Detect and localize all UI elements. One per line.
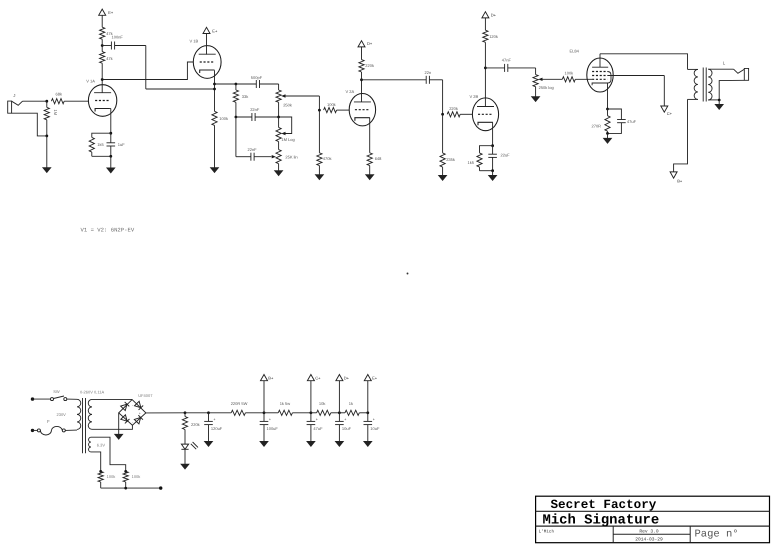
mains terminal top [31, 397, 34, 400]
wire V2B cathode lead [491, 121, 493, 123]
svg-text:1k5: 1k5 [97, 142, 104, 147]
svg-text:100k: 100k [132, 474, 141, 479]
power D+ tap [338, 381, 340, 413]
transformer T2 secondary [708, 69, 712, 100]
svg-text:22nF: 22nF [250, 107, 260, 112]
svg-text:V 1A: V 1A [86, 79, 95, 84]
svg-text:C+: C+ [667, 111, 673, 116]
wire 100nF down [145, 46, 147, 90]
ground V1B load [210, 168, 218, 173]
power C+ screen supply [661, 106, 668, 112]
wire EL84 cathode lead [607, 83, 609, 109]
potentiometer 250k treble [278, 84, 280, 90]
wire 6.3V bottom to humdinger [91, 452, 101, 472]
wire coupling down [442, 80, 444, 115]
wire V1B plate lead [206, 34, 208, 55]
node 120uF [207, 411, 210, 414]
resistor 1M input load [46, 101, 48, 107]
svg-text:J: J [13, 93, 15, 98]
capacitor 10uF filter E [367, 413, 369, 422]
node speaker ground [718, 99, 721, 102]
svg-text:EL84: EL84 [570, 49, 580, 54]
ground LED [181, 464, 189, 469]
wire bass wiper tie [279, 117, 292, 134]
svg-text:47k: 47k [106, 56, 112, 61]
node EL84 cathode [606, 108, 609, 111]
wire bridge minus to ground [118, 413, 120, 434]
wire EL84 plate lead [599, 54, 601, 67]
svg-text:25K lin: 25K lin [285, 155, 297, 160]
svg-text:68k: 68k [56, 92, 62, 97]
ground tone stack [274, 171, 282, 176]
ground input [43, 168, 51, 173]
svg-text:470k: 470k [323, 156, 332, 161]
wire 100k to EL84 grid [575, 78, 592, 80]
wire rail [359, 412, 368, 414]
capacitor 47nF coupling to master [485, 67, 504, 69]
svg-text:1M Log: 1M Log [281, 137, 294, 142]
node input grid [45, 100, 48, 103]
svg-text:220k: 220k [365, 63, 374, 68]
svg-text:SW: SW [53, 389, 60, 394]
wire master to ground [535, 87, 537, 97]
resistor 100k humdinger left [98, 471, 103, 482]
wire rail [339, 412, 345, 414]
node tone stack top left [235, 83, 238, 86]
svg-text:10uF: 10uF [342, 426, 352, 431]
svg-text:E+: E+ [212, 28, 218, 33]
resistor 470k V2A grid leak [318, 110, 320, 153]
resistor 33k tone slope [235, 84, 237, 90]
wire rail [245, 412, 264, 414]
capacitor 120uF filter [208, 413, 210, 422]
svg-text:+: + [213, 418, 215, 422]
svg-text:1M: 1M [53, 110, 58, 116]
wire V2B cathode RC bottom [480, 170, 493, 172]
ground 235k [438, 175, 446, 180]
svg-text:47uF: 47uF [627, 119, 637, 124]
wire V2A cathode lead [368, 117, 371, 119]
ground 100uF [260, 441, 268, 446]
wire jack sleeve to ground [12, 113, 47, 136]
wire fuse to transformer primary [65, 429, 77, 431]
wire secondary bottom [708, 99, 719, 101]
svg-text:235k: 235k [446, 157, 455, 162]
transformer T1 core [82, 398, 84, 453]
mains terminal bottom [31, 429, 34, 432]
resistor 100k V1B load [212, 111, 217, 125]
node humdinger right [124, 470, 127, 473]
power E+ tap [367, 381, 369, 413]
svg-text:47uF: 47uF [313, 426, 323, 431]
svg-text:C+: C+ [315, 375, 321, 380]
resistor 220k V2B grid [447, 112, 460, 117]
EL84 cathode bar [592, 83, 607, 85]
wire HV top to bridge [92, 398, 132, 400]
resistor 120k V2B plate load [484, 42, 486, 68]
wire 68k to V1A grid [64, 100, 89, 102]
capacitor 22uF V2B cathode bypass [492, 146, 494, 155]
svg-text:V 2B: V 2B [470, 94, 479, 99]
resistor 1k 5w dropper [278, 410, 292, 415]
capacitor 1uF V1A cathode bypass [110, 133, 112, 143]
svg-text:B+: B+ [268, 375, 274, 380]
resistor 47k V1A plate load upper [100, 27, 105, 39]
potentiometer 25K lin mid [272, 155, 276, 158]
resistor 235k V2B grid leak [442, 114, 444, 153]
ground 470k [315, 175, 323, 180]
capacitor 22nF bass [236, 116, 252, 118]
wire treble out down [318, 96, 320, 110]
svg-text:22n: 22n [425, 70, 432, 75]
resistor 220R 5W dropper [231, 410, 245, 415]
ground 47uF [307, 441, 315, 446]
wire to ground [110, 156, 112, 168]
wire rail [209, 412, 232, 414]
wire to ground [46, 136, 48, 168]
wire EL84 plate to output transformer [600, 54, 688, 70]
wire 235k to ground [442, 167, 444, 175]
svg-text:250k log: 250k log [539, 85, 554, 90]
svg-text:500pF: 500pF [251, 75, 263, 80]
svg-text:Page n°: Page n° [695, 529, 739, 541]
wire 100nF to V1B cathode [146, 88, 215, 90]
wire V1A plate to V1B grid [102, 62, 193, 80]
svg-text:V 2A: V 2A [346, 89, 355, 94]
node V2B cathode bottom [491, 169, 494, 172]
node V1B cathode cap join [213, 88, 216, 91]
wire rail [185, 412, 209, 414]
node V1A cathode [109, 132, 112, 135]
node heater reference end [159, 486, 162, 489]
resistor 220k V2A plate load [361, 72, 363, 80]
resistor 100k V2A grid [324, 108, 337, 113]
wire switch to transformer primary [67, 398, 77, 400]
svg-text:L'Mich: L'Mich [539, 529, 555, 535]
svg-text:V 1B: V 1B [190, 39, 199, 44]
resistor 270R EL84 cathode [607, 109, 609, 116]
svg-text:-: - [132, 403, 133, 407]
svg-text:V1 = V2: 6N2P-EV: V1 = V2: 6N2P-EV [81, 227, 135, 234]
capacitor 10uF filter [338, 413, 340, 422]
wire bridge plus to rail [146, 412, 185, 414]
wire secondary to speaker jack L [708, 68, 733, 70]
svg-text:D+: D+ [344, 375, 350, 380]
wire screen to C+ drop [663, 76, 665, 107]
node input ground [45, 135, 48, 138]
ground speaker [715, 104, 723, 109]
power E+ V1A supply [101, 15, 103, 27]
node V1B cathode out [213, 83, 216, 86]
capacitor 22n coupling [362, 79, 427, 81]
svg-text:10uF: 10uF [370, 426, 380, 431]
svg-text:Mich Signature: Mich Signature [543, 513, 660, 529]
svg-text:120k: 120k [489, 34, 498, 39]
resistor 68k grid stopper [51, 99, 64, 104]
ground V2B cathode [488, 175, 496, 180]
node tone mid right [277, 116, 280, 119]
power B+ plate supply [670, 172, 677, 178]
svg-text:33k: 33k [242, 94, 248, 99]
svg-text:100uF: 100uF [267, 426, 279, 431]
svg-text:100k: 100k [565, 70, 574, 75]
title block frame [536, 496, 770, 543]
node V2B plate [484, 67, 487, 70]
svg-text:100k: 100k [219, 116, 228, 121]
svg-text:1uF: 1uF [118, 142, 125, 147]
svg-text:D+: D+ [491, 13, 497, 18]
wire V1B cathode to tone stack [215, 83, 236, 85]
ground V1A cathode [107, 168, 115, 173]
EL84 suppressor tie to cathode [607, 72, 611, 84]
svg-text:-: - [132, 420, 133, 424]
svg-text:100nF: 100nF [112, 35, 124, 40]
potentiometer 1M Log bass [278, 117, 280, 127]
wire rail [264, 412, 278, 414]
svg-text:220R 5W: 220R 5W [231, 401, 248, 406]
wire cathode RC bottom [92, 155, 111, 157]
ground 120uF [204, 441, 212, 446]
svg-text:1k 5w: 1k 5w [280, 401, 291, 406]
wire tone left down [235, 117, 237, 157]
svg-text:D+: D+ [367, 41, 373, 46]
wire LED to ground [184, 449, 186, 464]
wire 6.3V top to humdinger [91, 437, 126, 471]
ground 10uF D [335, 441, 343, 446]
power C+ tap [310, 381, 312, 413]
node V2A grid [318, 109, 321, 112]
power B+ tap [263, 381, 265, 413]
svg-text:2014-03-29: 2014-03-29 [635, 537, 663, 543]
stray dot [407, 273, 409, 275]
wire mid pot to ground [278, 164, 280, 171]
transformer T2 core [702, 68, 704, 102]
wire V1B cathode lead [213, 69, 215, 71]
LED pilot [184, 430, 186, 445]
ground EL84 cathode [603, 138, 611, 143]
svg-text:Secret Factory: Secret Factory [551, 498, 657, 512]
svg-text:250k: 250k [283, 103, 292, 108]
node LED branch [184, 411, 187, 414]
resistor 10k dropper [317, 410, 331, 415]
svg-text:10k: 10k [319, 401, 325, 406]
node V2A plate [360, 78, 363, 81]
wire rail [331, 412, 340, 414]
svg-text:E+: E+ [372, 375, 378, 380]
svg-text:+: + [316, 418, 318, 422]
svg-text:B+: B+ [677, 178, 683, 183]
svg-text:100k: 100k [107, 474, 116, 479]
resistor 220k bleeder [184, 413, 186, 417]
node V1A plate [101, 78, 104, 81]
svg-text:6.3V: 6.3V [97, 442, 106, 447]
wire V2A plate lead [361, 80, 363, 102]
capacitor 100nF feedback tap [102, 45, 111, 47]
capacitor 47uF EL84 cathode bypass [608, 109, 622, 120]
power D+ V2B supply [484, 18, 486, 30]
svg-text:648: 648 [375, 156, 382, 161]
capacitor 500pF treble [236, 83, 256, 85]
wire 220k to V2B grid [460, 113, 472, 115]
potentiometer 250k log master [533, 75, 538, 87]
svg-text:+: + [344, 418, 346, 422]
wire rail [292, 412, 311, 414]
resistor 100k humdinger right [123, 471, 128, 482]
node V2B cathode [491, 144, 494, 147]
wire treble wiper out [286, 95, 320, 97]
svg-text:270R: 270R [592, 123, 602, 128]
node V2B grid [441, 113, 444, 116]
svg-text:0-260V 0,11A: 0-260V 0,11A [80, 390, 104, 395]
svg-text:1k: 1k [349, 401, 353, 406]
node 47k divider [101, 46, 103, 52]
svg-text:+: + [139, 412, 141, 416]
resistor 1k5 V2B cathode [480, 146, 493, 153]
wire HV bottom to bridge [92, 425, 132, 429]
capacitor 100uF filter [263, 413, 265, 422]
svg-text:Rev 3.0: Rev 3.0 [639, 528, 659, 534]
wire humdinger bottom rail [101, 487, 161, 489]
svg-text:+: + [373, 418, 375, 422]
ground V2A cathode [366, 175, 374, 180]
wire primary to B+ [674, 99, 688, 171]
svg-text:220k: 220k [449, 106, 458, 111]
wire jack tip to grid node [23, 100, 47, 102]
wire jack sleeve return [719, 80, 744, 100]
node humdinger left [99, 470, 102, 473]
ground bridge [115, 434, 123, 439]
resistor 47k V1A plate load lower [101, 63, 103, 79]
resistor 1k dropper [345, 410, 359, 415]
svg-text:1k5: 1k5 [468, 160, 475, 165]
node C+ [310, 411, 313, 414]
wire V1A cathode lead [109, 108, 112, 110]
svg-text:22nF: 22nF [248, 147, 258, 152]
wire 470k to ground [318, 166, 320, 175]
svg-text:F: F [47, 419, 50, 424]
svg-text:230V: 230V [57, 412, 67, 417]
wire 100k to V2A grid [337, 109, 350, 111]
transformer T2 primary [688, 68, 698, 70]
wire 100k to ground [214, 125, 216, 167]
ground 10uF E [364, 441, 372, 446]
svg-text:UF4007: UF4007 [138, 393, 153, 398]
wire mains top to switch [33, 398, 51, 400]
wire rail [311, 412, 317, 414]
wire 648 to ground [369, 166, 371, 175]
node V1A cathode bottom [109, 155, 112, 158]
node EL84 cathode bottom [606, 132, 609, 135]
wire to master volume [535, 68, 537, 75]
power E+ V1B supply [203, 27, 210, 33]
svg-text:+: + [269, 418, 271, 422]
node B+ [263, 411, 266, 414]
svg-text:120uF: 120uF [211, 426, 223, 431]
resistor 648 V2A cathode [367, 153, 372, 166]
node D+ [338, 411, 341, 414]
svg-text:100k: 100k [327, 102, 336, 107]
wire 1M to ground node [46, 120, 48, 137]
wire V2B plate lead [484, 68, 486, 107]
svg-text:47nF: 47nF [502, 57, 512, 62]
wire EL84 screen lead [607, 75, 664, 77]
svg-text:220k: 220k [191, 422, 200, 427]
wire V1A plate lead [101, 80, 103, 93]
node E+ [366, 411, 369, 414]
capacitor 22nF mid [236, 156, 251, 158]
svg-text:22uF: 22uF [501, 153, 511, 158]
wire master wiper out [543, 78, 563, 80]
wire mains bottom to fuse [33, 429, 38, 431]
resistor 1k5 V1A cathode [92, 133, 111, 137]
capacitor 47uF filter [310, 413, 312, 422]
resistor 100k EL84 grid [562, 77, 575, 82]
node tone mid left [235, 116, 238, 119]
power D+ V2A supply [361, 47, 363, 60]
node humdinger center [124, 487, 127, 490]
ground master volume [531, 97, 539, 102]
svg-text:E+: E+ [108, 10, 114, 15]
